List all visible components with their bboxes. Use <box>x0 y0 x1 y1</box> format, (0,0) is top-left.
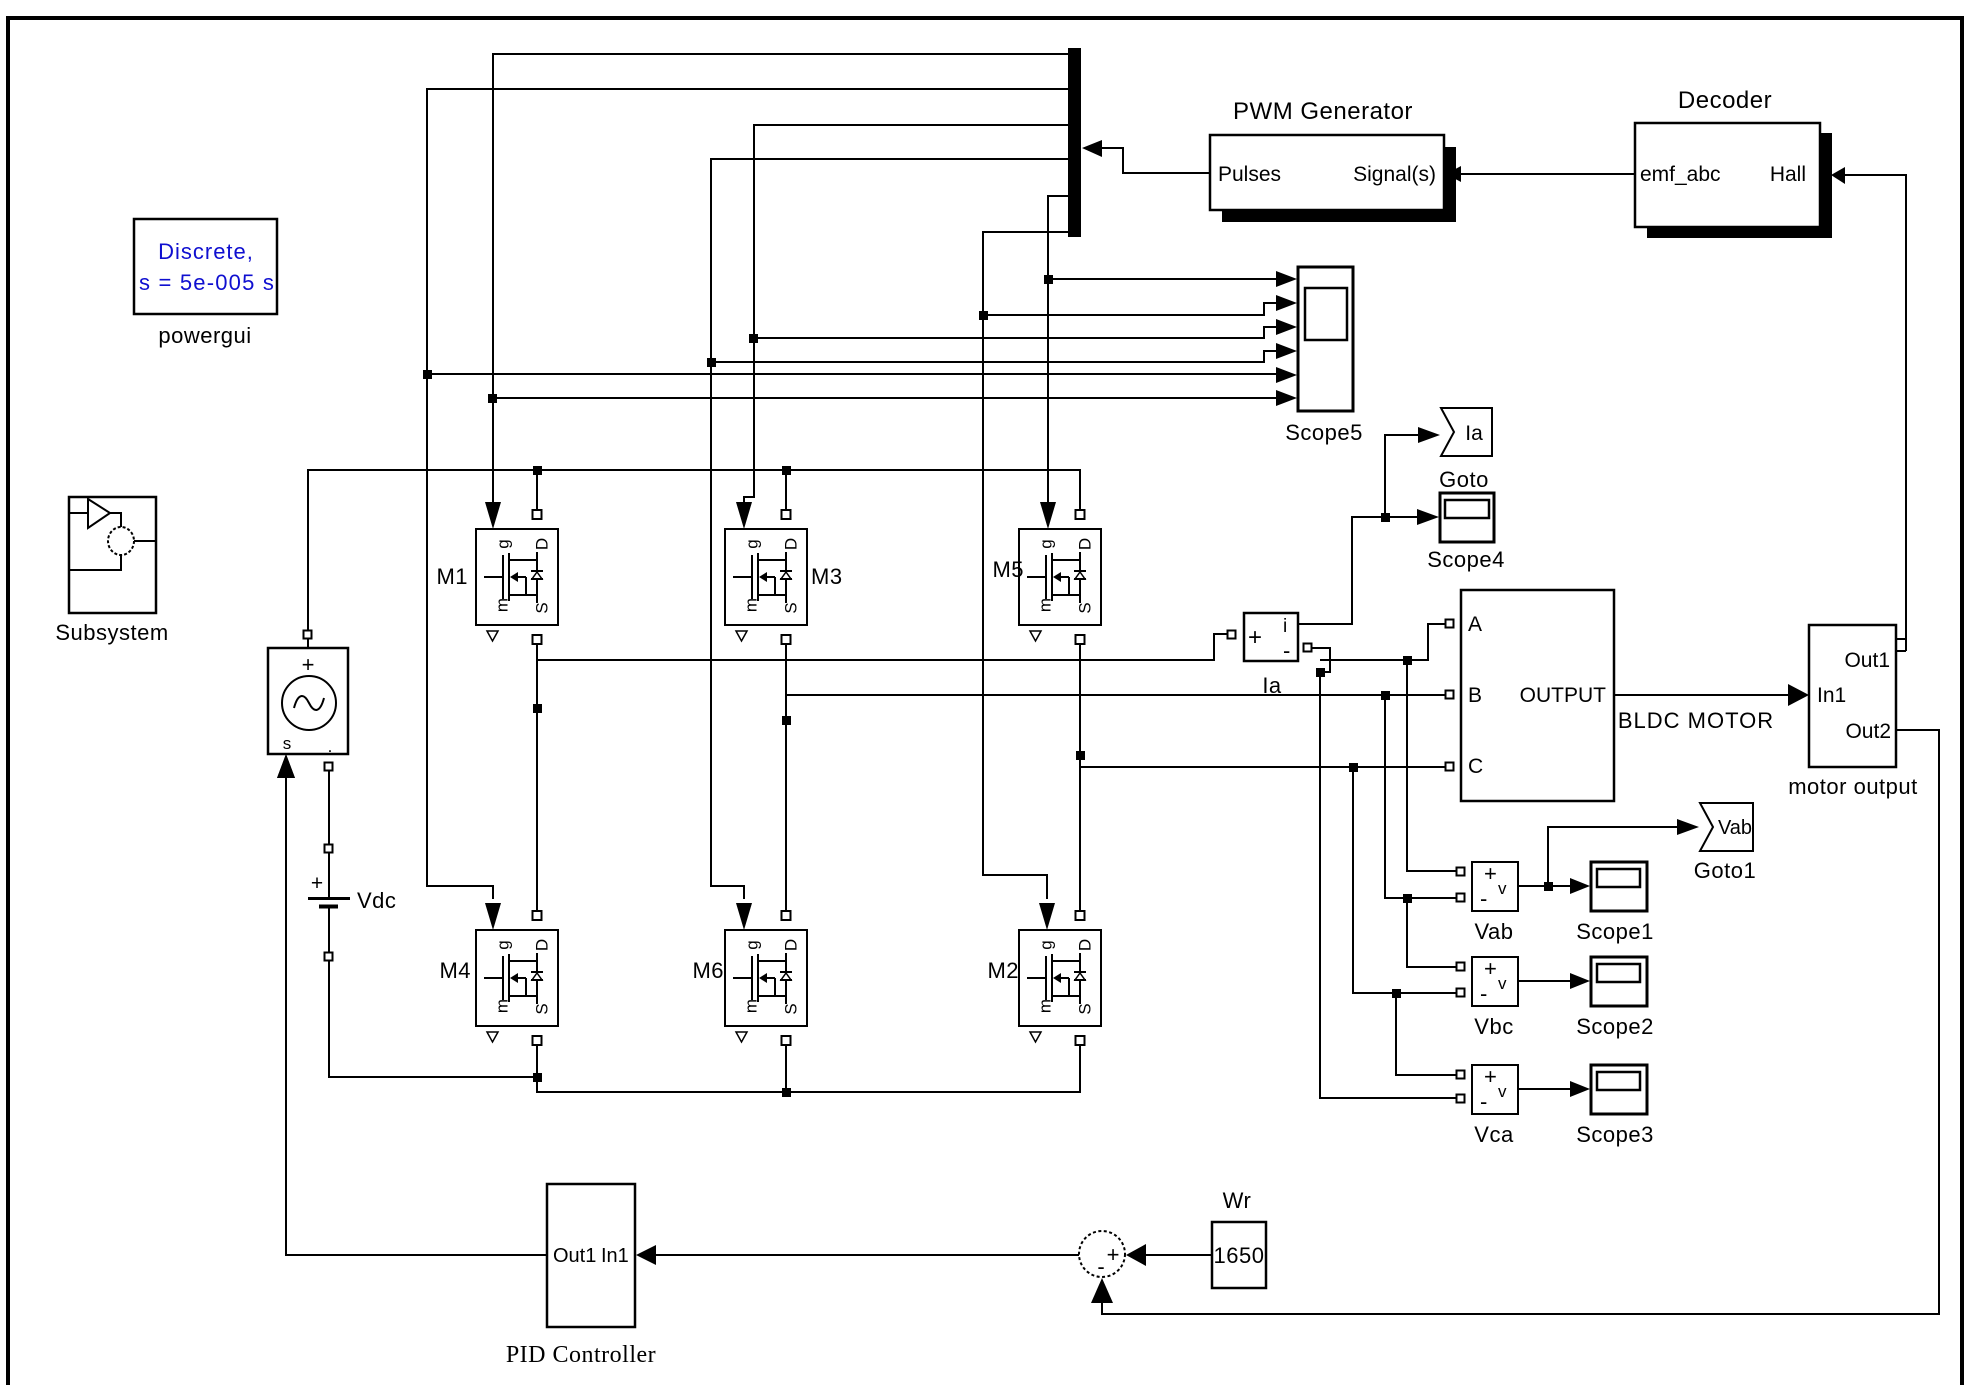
svg-text:Vca: Vca <box>1474 1122 1514 1147</box>
port Vca - <box>1457 1095 1465 1103</box>
M2 gate arrowhead <box>1039 903 1055 930</box>
node bottom rail M6 <box>782 1088 791 1097</box>
wire Vab output to Scope1 and Goto1 <box>1518 827 1677 886</box>
port Ia - output <box>1304 644 1312 652</box>
Vdc battery symbol <box>308 872 350 907</box>
M1 gate arrowhead <box>485 502 501 529</box>
node leg1 <box>533 704 542 713</box>
port Vab - <box>1457 894 1465 902</box>
svg-text:PID Controller: PID Controller <box>506 1342 656 1368</box>
svg-text:emf_abc: emf_abc <box>1640 163 1721 186</box>
powergui block <box>134 219 277 314</box>
wire Vca output to Scope3 <box>1518 1088 1570 1090</box>
constant block Wr 1650 <box>1212 1222 1266 1288</box>
sum block (speed error) <box>1079 1231 1125 1279</box>
wire leg1 M1 source to M4 drain <box>536 645 538 910</box>
node Ia minus jog <box>1316 668 1325 677</box>
wire gate M1 tap to Scope5 in6 <box>492 397 1276 399</box>
svg-text:Out2: Out2 <box>1845 720 1891 743</box>
wire Decoder emf_abc to PWM Signal(s) input <box>1461 173 1635 175</box>
svg-text:powergui: powergui <box>158 323 251 348</box>
svg-text:B: B <box>1468 684 1482 707</box>
Goto1 tag Vab <box>1700 803 1753 851</box>
node Vbc- to Vca+ branch <box>1392 989 1401 998</box>
voltage measurement Vab <box>1472 861 1518 911</box>
svg-text:OUTPUT: OUTPUT <box>1520 684 1607 707</box>
svg-text:A: A <box>1468 613 1482 636</box>
wire demux out1 to M1 gate <box>493 54 1068 505</box>
svg-text:Scope4: Scope4 <box>1427 547 1505 572</box>
port Vbc - <box>1457 989 1465 997</box>
M3 gate arrowhead <box>736 502 752 529</box>
svg-text:In1: In1 <box>1817 684 1846 707</box>
port Ia + input <box>1228 631 1236 639</box>
wire gate M4 tap to Scope5 in5 <box>427 373 1276 375</box>
BLDC MOTOR OUTPUT block <box>1461 590 1614 801</box>
arrowhead into Scope4 <box>1417 509 1439 525</box>
port OUTPUT C <box>1446 763 1454 771</box>
voltage measurement Vbc <box>1472 956 1518 1006</box>
svg-text:M6: M6 <box>692 958 724 983</box>
wire Ia i-output to Goto Ia and Scope4 <box>1298 435 1418 624</box>
svg-text:i: i <box>1283 616 1287 637</box>
demux bar (pulse splitter) <box>1068 48 1081 237</box>
wire leg2 M3 source to M6 drain <box>785 645 787 910</box>
svg-text:-: - <box>1097 1254 1104 1279</box>
wire Ia - terminal to OUTPUT A / Vab+ / Vca- <box>1312 624 1456 1098</box>
svg-text:Scope2: Scope2 <box>1576 1014 1654 1039</box>
wire leg3 M5 source to M2 drain <box>1079 645 1081 910</box>
wire demux out2 to M4 gate <box>427 89 1068 899</box>
svg-text:Decoder: Decoder <box>1678 87 1772 114</box>
svg-text:Scope3: Scope3 <box>1576 1122 1654 1147</box>
svg-text:s: s <box>283 734 292 753</box>
wire OUTPUT to motor output In1 <box>1614 694 1788 696</box>
svg-text:Goto: Goto <box>1439 467 1489 492</box>
voltage measurement Vca <box>1472 1064 1518 1114</box>
svg-text:-: - <box>1283 638 1290 663</box>
wire demux out6 to M2 gate <box>983 232 1068 899</box>
Scope3 block <box>1591 1065 1647 1114</box>
port voltage source - <box>325 763 333 771</box>
svg-text:BLDC MOTOR: BLDC MOTOR <box>1618 708 1774 733</box>
svg-text:Out1: Out1 <box>553 1245 596 1267</box>
svg-text:Ia: Ia <box>1465 422 1483 445</box>
node phase B branch <box>1381 691 1390 700</box>
M4 gate arrowhead <box>485 903 501 930</box>
svg-text:.: . <box>328 737 333 756</box>
port Vab + <box>1457 868 1465 876</box>
arrowhead into Scope1 <box>1570 878 1590 894</box>
wire motor output Out1 to Decoder Hall input <box>1845 175 1906 651</box>
port Vca + <box>1457 1071 1465 1079</box>
M5 gate arrowhead <box>1040 502 1056 529</box>
motor output subsystem block <box>1809 625 1896 767</box>
transistor M1 <box>476 510 558 644</box>
svg-text:Vbc: Vbc <box>1474 1014 1513 1039</box>
PID Controller block <box>547 1184 635 1327</box>
svg-text:Vab: Vab <box>1718 817 1752 839</box>
svg-text:Signal(s): Signal(s) <box>1353 163 1436 186</box>
wire gate M6 tap to Scope5 in4 <box>711 351 1276 362</box>
node rail-M3 drain <box>782 466 791 475</box>
svg-text:Scope1: Scope1 <box>1576 919 1654 944</box>
node leg3 <box>1076 751 1085 760</box>
svg-text:+: + <box>1248 624 1262 651</box>
port voltage source + <box>304 631 312 639</box>
wire motor output Out2 feedback to sum junction <box>1102 730 1939 1314</box>
svg-text:+: + <box>302 652 315 677</box>
wire DC+ rail from AC source to M1/M3/M5 drains <box>308 470 1080 648</box>
node Ia signal branch <box>1381 513 1390 522</box>
arrowhead into Goto Ia <box>1418 427 1440 443</box>
svg-text:Scope5: Scope5 <box>1285 420 1363 445</box>
Scope5 block <box>1298 267 1353 411</box>
wire gate M2 tap to Scope5 in2 <box>983 303 1276 315</box>
svg-text:motor output: motor output <box>1788 774 1918 799</box>
svg-text:s = 5e-005 s: s = 5e-005 s <box>139 270 275 295</box>
Subsystem block <box>69 497 156 613</box>
transistor M3 <box>725 510 807 644</box>
svg-text:PWM Generator: PWM Generator <box>1233 98 1413 125</box>
Scope2 block <box>1591 957 1647 1006</box>
wire demux out5 to M5 gate <box>1048 196 1068 505</box>
port Vbc + <box>1457 963 1465 971</box>
port Vdc bottom <box>325 953 333 961</box>
svg-text:In1: In1 <box>601 1245 629 1267</box>
svg-text:Hall: Hall <box>1770 163 1806 186</box>
wire Vbc output to Scope2 <box>1518 980 1570 982</box>
svg-text:+: + <box>311 872 323 895</box>
Decoder block <box>1635 123 1832 238</box>
svg-text:M4: M4 <box>439 958 471 983</box>
svg-text:Discrete,: Discrete, <box>158 239 254 264</box>
node phase A branch <box>1403 656 1412 665</box>
node phase C branch <box>1349 763 1358 772</box>
node bottom rail M4 <box>533 1073 542 1082</box>
svg-text:Out1: Out1 <box>1844 649 1890 672</box>
transistor M2 <box>1019 911 1101 1045</box>
wire demux out4 to M6 gate <box>711 159 1068 899</box>
svg-text:C: C <box>1468 755 1483 778</box>
transistor M5 <box>1019 510 1101 644</box>
wire demux out3 to M3 gate <box>744 125 1068 505</box>
node Vab- to Vbc+ branch <box>1403 894 1412 903</box>
wire gate M5 tap to Scope5 in1 <box>1048 278 1276 280</box>
current measurement block Ia <box>1244 613 1298 663</box>
M6 gate arrowhead <box>736 903 752 930</box>
svg-text:Vdc: Vdc <box>357 888 396 913</box>
wire bottom rail return to Vdc <box>329 961 537 1077</box>
transistor M4 <box>476 911 558 1045</box>
wire phase A leg1 to Ia + input <box>537 634 1227 660</box>
svg-text:M3: M3 <box>811 564 843 589</box>
svg-text:Goto1: Goto1 <box>1694 858 1756 883</box>
svg-text:Pulses: Pulses <box>1218 163 1281 186</box>
svg-text:+: + <box>1107 1242 1120 1267</box>
wire phase B leg2 to OUTPUT B / Vab- / Vbc+ <box>786 695 1456 967</box>
node leg2 <box>782 716 791 725</box>
wire AC source - terminal to Vdc battery <box>328 771 330 961</box>
wire M4 source to bottom rail <box>536 1046 538 1077</box>
Scope4 block <box>1440 493 1494 542</box>
PWM Generator block <box>1210 135 1456 222</box>
wire bottom rail to M6/M2 sources <box>537 1046 1080 1092</box>
port Vdc top <box>325 845 333 853</box>
Scope1 block <box>1591 862 1647 911</box>
wire gate M3 tap to Scope5 in3 <box>753 327 1276 338</box>
wire phase C leg3 to OUTPUT C / Vbc- / Vca+ <box>1080 767 1456 1075</box>
arrowhead into Goto1 <box>1677 819 1699 835</box>
Goto tag Ia <box>1441 408 1492 456</box>
wire sum output to PID In1 <box>656 1254 1079 1256</box>
svg-text:Wr: Wr <box>1223 1188 1252 1213</box>
port OUTPUT B <box>1446 691 1454 699</box>
svg-text:1650: 1650 <box>1214 1243 1265 1268</box>
node Vab output branch <box>1544 882 1553 891</box>
arrowhead voltage source s input <box>277 754 295 778</box>
svg-text:Ia: Ia <box>1262 673 1282 698</box>
wire PWM Pulses output to demux input <box>1102 148 1210 173</box>
wire PID Out1 to voltage source control input <box>286 778 547 1255</box>
node rail-M1 drain <box>533 466 542 475</box>
svg-text:Subsystem: Subsystem <box>55 620 168 645</box>
controlled voltage source block <box>268 648 348 756</box>
port OUTPUT A <box>1446 620 1454 628</box>
transistor M6 <box>725 911 807 1045</box>
svg-text:M1: M1 <box>436 564 468 589</box>
svg-text:M2: M2 <box>987 958 1019 983</box>
svg-text:M5: M5 <box>992 557 1024 582</box>
svg-text:Vab: Vab <box>1474 919 1513 944</box>
wire Wr 1650 to sum + input <box>1146 1254 1212 1256</box>
